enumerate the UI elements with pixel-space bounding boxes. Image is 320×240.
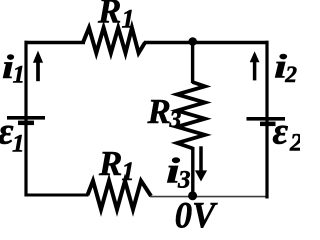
wire left vertical xyxy=(24,41,27,197)
svg-text:3: 3 xyxy=(177,167,191,194)
battery E1 short plate xyxy=(18,121,34,126)
current arrow i1 up xyxy=(33,51,43,82)
label R3 xyxy=(147,92,182,133)
node: bottom junction dot xyxy=(188,191,197,200)
wire top-right segment xyxy=(144,41,269,44)
svg-text:2: 2 xyxy=(284,62,297,88)
wire right vertical xyxy=(265,41,268,199)
wire bottom-left segment xyxy=(25,194,89,197)
node: top junction dot xyxy=(188,37,197,46)
svg-text:1: 1 xyxy=(13,62,26,89)
resistor R1 bottom zigzag xyxy=(88,181,152,210)
svg-text:1: 1 xyxy=(122,157,135,186)
label R1 bottom xyxy=(98,144,135,186)
label i2 xyxy=(274,49,297,89)
svg-text:3: 3 xyxy=(169,107,182,133)
svg-text:R: R xyxy=(147,92,171,131)
label epsilon1 xyxy=(0,111,25,158)
svg-text:0V: 0V xyxy=(175,196,219,229)
svg-text:1: 1 xyxy=(122,5,135,34)
wire middle vertical lower xyxy=(191,147,194,196)
current arrow i2 up xyxy=(250,51,260,80)
label i1 xyxy=(2,49,25,89)
resistor R1 top zigzag xyxy=(83,28,145,53)
battery E1 long plate xyxy=(7,116,45,120)
label R1 top xyxy=(97,0,135,34)
svg-text:ε: ε xyxy=(273,111,289,153)
label i3 xyxy=(166,151,191,194)
resistor R3 vertical zigzag xyxy=(177,82,205,149)
svg-text:1: 1 xyxy=(12,131,25,158)
wire bottom-right thin segment xyxy=(150,196,268,198)
battery E2 long plate xyxy=(247,117,286,121)
label epsilon2 xyxy=(273,111,303,157)
current arrow i3 down xyxy=(195,146,207,181)
svg-text:R: R xyxy=(97,0,121,31)
battery E2 short plate xyxy=(260,122,276,127)
svg-text:2: 2 xyxy=(289,130,300,157)
wire middle vertical upper xyxy=(191,42,194,84)
wire top-left segment xyxy=(25,41,86,44)
svg-text:R: R xyxy=(98,144,122,183)
